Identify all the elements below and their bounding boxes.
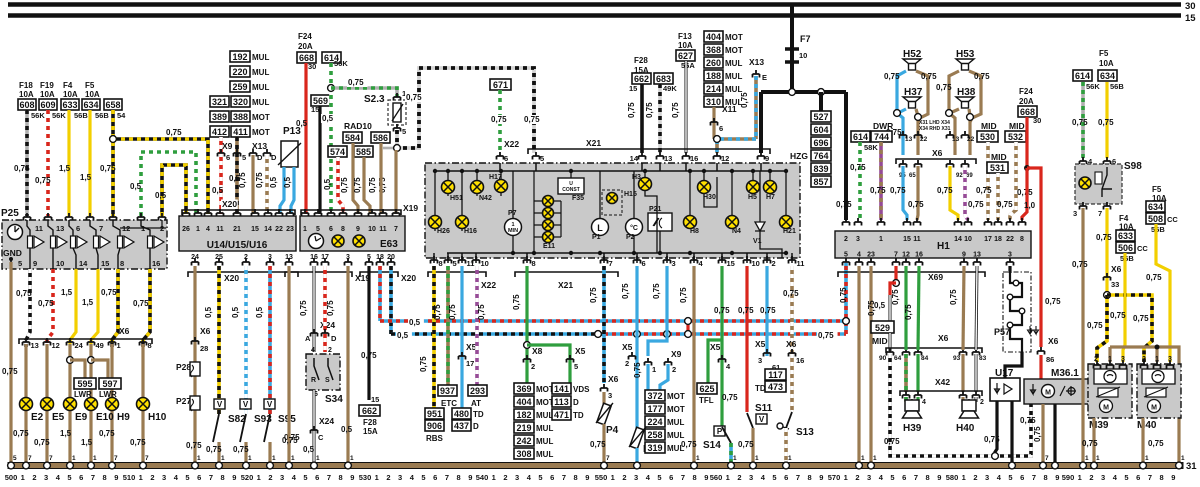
svg-text:6: 6 [1136, 473, 1140, 482]
wire cluster pin 5 to ETC code [446, 266, 450, 385]
svg-text:0,75: 0,75 [133, 299, 149, 308]
svg-text:412: 412 [212, 127, 227, 137]
svg-text:530: 530 [359, 473, 372, 482]
svg-text:3: 3 [758, 356, 762, 365]
svg-text:7: 7 [327, 473, 331, 482]
svg-text:15: 15 [903, 236, 911, 243]
svg-text:6: 6 [226, 153, 230, 162]
svg-text:7: 7 [1032, 473, 1036, 482]
svg-text:7: 7 [1098, 209, 1102, 218]
wire 627 to cluster pin 16 [685, 61, 688, 153]
svg-text:E63: E63 [380, 239, 398, 250]
wire cluster pin 10 to AT code [475, 266, 479, 385]
svg-text:7: 7 [796, 473, 800, 482]
svg-text:5: 5 [185, 473, 189, 482]
svg-text:0,75: 0,75 [512, 294, 521, 310]
svg-text:1: 1 [93, 455, 97, 462]
wire to H1 pin 10 [965, 166, 968, 220]
svg-text:14: 14 [954, 236, 962, 243]
svg-text:6: 6 [902, 473, 906, 482]
junction to LWR 595 [67, 357, 74, 364]
svg-text:0,75: 0,75 [1148, 439, 1164, 448]
svg-text:F28: F28 [363, 418, 377, 427]
svg-text:0,75: 0,75 [130, 438, 146, 447]
cluster internal top rail [435, 170, 786, 172]
svg-text:0,75: 0,75 [681, 440, 697, 449]
svg-text:2: 2 [150, 473, 154, 482]
svg-text:0,5: 0,5 [231, 306, 240, 318]
svg-text:10: 10 [481, 259, 489, 268]
svg-text:0,75: 0,75 [671, 102, 680, 118]
H53/H38 left wire brown [949, 71, 959, 124]
svg-text:7: 7 [114, 455, 118, 462]
svg-text:696: 696 [813, 138, 828, 148]
svg-text:X8: X8 [532, 346, 543, 356]
svg-text:8: 8 [341, 226, 345, 233]
svg-text:0,75: 0,75 [633, 362, 642, 378]
svg-text:0,75: 0,75 [101, 288, 117, 297]
svg-text:RBS: RBS [426, 434, 444, 443]
svg-text:20A: 20A [1019, 97, 1034, 106]
svg-text:0,75: 0,75 [884, 72, 900, 81]
svg-text:0,75: 0,75 [1072, 260, 1088, 269]
svg-text:8: 8 [808, 473, 812, 482]
U17 ground wire [1010, 401, 1013, 463]
svg-text:0,75: 0,75 [714, 306, 730, 315]
wire 411 via X9 to U14 pin 21 [235, 137, 239, 214]
svg-text:8: 8 [221, 473, 225, 482]
svg-text:11: 11 [216, 226, 224, 233]
svg-text:388: 388 [233, 112, 248, 122]
switch S93 [240, 399, 251, 409]
svg-text:MUL: MUL [536, 424, 553, 433]
wire 614 to S98 pin 4 [1081, 82, 1085, 158]
svg-text:1: 1 [611, 473, 615, 482]
junction at S2.3 output [394, 145, 401, 152]
svg-text:15: 15 [371, 395, 379, 404]
svg-text:1: 1 [272, 455, 276, 462]
wire S98 pin 3 to ground [1081, 208, 1084, 463]
svg-text:N42: N42 [479, 195, 492, 202]
svg-text:2: 2 [625, 359, 629, 368]
wire E63 pin 17 to S34 via X24-D [323, 266, 327, 352]
svg-text:E: E [762, 73, 767, 82]
wire loop green/white to P25 pin 1 and U14 pin 1 [141, 152, 196, 216]
svg-text:11: 11 [913, 236, 921, 243]
svg-text:0,75: 0,75 [936, 83, 952, 92]
switch S82 [214, 399, 225, 409]
svg-text:8: 8 [1044, 473, 1048, 482]
rear speaker H39 [904, 397, 908, 402]
svg-text:411: 411 [233, 127, 248, 137]
svg-text:0,5: 0,5 [874, 301, 886, 310]
svg-text:9: 9 [33, 259, 37, 268]
junction to LWR 597 [88, 357, 95, 364]
svg-text:H40: H40 [956, 423, 975, 434]
svg-text:4: 4 [857, 252, 861, 259]
wire P25 pin 14 to X6 [70, 269, 76, 347]
wire E63 pin 16 to S34 via X24-A [313, 266, 316, 352]
wire F7 to H1 pin 2 [844, 92, 848, 220]
svg-text:P25: P25 [1, 208, 19, 219]
wire 614 to H1 pin 3 [858, 142, 862, 220]
svg-text:P57: P57 [994, 327, 1010, 337]
cluster internal rail junctions [511, 251, 515, 255]
svg-text:ETC: ETC [441, 399, 457, 408]
wire cluster pin 8 to RBS codes [432, 266, 436, 408]
warning lamp H5 [747, 181, 760, 194]
svg-text:764: 764 [813, 151, 828, 161]
svg-text:H7: H7 [766, 194, 775, 201]
svg-text:3: 3 [515, 473, 519, 482]
wire to H1 pin 11 [917, 166, 918, 220]
svg-text:H17: H17 [489, 174, 502, 181]
svg-text:15: 15 [629, 84, 637, 93]
svg-text:1: 1 [879, 236, 883, 243]
svg-text:MIN: MIN [508, 228, 518, 234]
warning lamp H26 [434, 171, 436, 231]
wire 584 to E63 pin 9 [353, 143, 358, 214]
instrument illumination control P25 [2, 220, 167, 269]
ignition switch S34 [306, 354, 340, 390]
wire S2.3 to cluster via top loop [397, 68, 534, 153]
svg-text:1: 1 [117, 341, 121, 350]
svg-text:X20: X20 [401, 273, 416, 283]
wire cluster pin 3 to X9-1 [648, 266, 667, 356]
svg-text:1: 1 [291, 455, 295, 462]
wire H1 pin 12 to H39 via X6-64 [904, 266, 907, 350]
svg-text:1: 1 [1145, 455, 1149, 462]
wire cluster pin 4 to ground [692, 266, 695, 463]
svg-text:6: 6 [315, 473, 319, 482]
P25 internal amplifier symbols [27, 220, 30, 236]
temperature gauge P2 [626, 219, 643, 236]
wire 668 to H1 pin 8 and M36.1 [1025, 117, 1028, 168]
svg-text:56B: 56B [1120, 254, 1134, 263]
svg-text:F24: F24 [1019, 87, 1033, 96]
svg-text:GND: GND [3, 248, 22, 258]
svg-text:0,75: 0,75 [99, 429, 115, 438]
svg-text:26: 26 [182, 226, 190, 233]
wire H1 pin 9 to H40 via X6-93 [963, 266, 964, 350]
svg-text:2: 2 [386, 473, 390, 482]
wire code 668 [297, 52, 316, 63]
svg-text:23: 23 [867, 252, 875, 259]
svg-text:M: M [1045, 390, 1051, 397]
svg-text:E9: E9 [75, 412, 88, 423]
svg-text:3: 3 [634, 473, 638, 482]
wire 586 to E63 pin 11 [379, 143, 382, 214]
svg-text:8: 8 [120, 259, 124, 268]
svg-text:0,75: 0,75 [890, 186, 906, 195]
svg-text:TFL: TFL [699, 396, 714, 405]
svg-text:15: 15 [251, 226, 259, 233]
svg-text:0,75: 0,75 [783, 289, 799, 298]
svg-text:2: 2 [268, 473, 272, 482]
fuel gauge P1 [592, 219, 609, 236]
svg-text:0,75: 0,75 [100, 164, 116, 173]
svg-text:X24: X24 [319, 416, 334, 426]
svg-text:X13: X13 [749, 57, 764, 67]
svg-text:293: 293 [470, 386, 485, 396]
svg-text:X5: X5 [575, 346, 586, 356]
wire codes 412 411 MOT [210, 126, 229, 137]
svg-text:D: D [573, 398, 579, 407]
svg-text:3: 3 [856, 236, 860, 243]
voltage stabilizer F35 [558, 178, 584, 194]
svg-text:10A: 10A [40, 90, 55, 99]
svg-text:6: 6 [504, 154, 508, 163]
svg-text:0,5: 0,5 [323, 178, 332, 190]
svg-text:480: 480 [454, 409, 469, 419]
svg-text:84: 84 [921, 355, 929, 362]
svg-text:M36.1: M36.1 [1051, 368, 1079, 379]
svg-text:X22: X22 [481, 280, 496, 290]
connector X42 [900, 391, 982, 396]
svg-text:6: 6 [76, 224, 80, 233]
svg-text:18: 18 [994, 236, 1002, 243]
svg-text:F19: F19 [40, 81, 54, 90]
wire to HZG codes [819, 92, 823, 112]
clips 13 22 left pair [900, 131, 907, 139]
svg-text:529: 529 [875, 323, 890, 333]
fuel level sensor P4 [602, 392, 605, 404]
wire X13-E to cluster pin 12 [754, 76, 758, 139]
svg-text:527: 527 [813, 112, 828, 122]
connector X6 (left) [19, 339, 152, 344]
svg-text:X19: X19 [403, 203, 418, 213]
svg-text:404: 404 [706, 32, 721, 42]
svg-text:7: 7 [1148, 473, 1152, 482]
svg-text:634: 634 [83, 100, 98, 110]
svg-text:D: D [473, 422, 479, 431]
svg-text:9: 9 [350, 473, 354, 482]
svg-text:H30: H30 [703, 194, 716, 201]
svg-text:671: 671 [493, 80, 508, 90]
svg-text:MUL: MUL [536, 437, 553, 446]
bus 30 (battery positive rail) [8, 2, 1181, 7]
svg-text:0,75: 0,75 [38, 299, 54, 308]
svg-text:P27: P27 [176, 396, 191, 406]
svg-text:4: 4 [206, 226, 210, 233]
wire H1 pin 4 to ground [857, 266, 860, 463]
svg-text:634: 634 [1100, 71, 1115, 81]
wire 634 to P25 pin 7 [88, 110, 91, 216]
warning lamp H3 [644, 171, 646, 192]
svg-text:8: 8 [693, 473, 697, 482]
wire H1 pin 16 to H39 via X6-84 [918, 266, 919, 350]
wire cluster pin 7 to P4 sensor [602, 266, 606, 383]
svg-text:90: 90 [879, 355, 887, 362]
wire E63 pin 13 to ground [287, 266, 290, 463]
svg-text:627: 627 [678, 51, 693, 61]
wire 412 via X9 to U14 pin 11 [219, 137, 223, 214]
svg-text:662: 662 [634, 74, 649, 84]
wire code column 369/404 MOT 182/219/242/308 MUL [514, 383, 534, 394]
svg-text:0,75: 0,75 [836, 200, 852, 209]
svg-text:8: 8 [457, 473, 461, 482]
svg-text:56K: 56K [52, 111, 66, 120]
svg-text:TD: TD [473, 410, 484, 419]
wire codes 321 320 MUL [210, 96, 229, 107]
svg-text:S11: S11 [755, 403, 773, 414]
svg-text:VDS: VDS [573, 385, 590, 394]
wire to M40 pin 2 [1107, 295, 1152, 362]
junction on 614 wire [328, 85, 335, 92]
bridge between bus wires [686, 321, 689, 334]
svg-text:906: 906 [427, 421, 442, 431]
svg-text:0,75: 0,75 [1096, 233, 1112, 242]
svg-text:83: 83 [979, 355, 987, 362]
svg-text:5: 5 [67, 473, 71, 482]
svg-text:0,75: 0,75 [524, 115, 540, 124]
lamp E5 [41, 398, 54, 411]
svg-text:319: 319 [647, 443, 662, 453]
svg-text:AT: AT [471, 399, 481, 408]
svg-text:13: 13 [664, 154, 672, 163]
svg-text:1,5: 1,5 [81, 438, 93, 447]
illumination lamps E11 [534, 200, 561, 202]
P13 wires to E63 pins 22 23 [280, 167, 284, 214]
svg-text:15: 15 [311, 105, 319, 114]
svg-text:586: 586 [373, 133, 388, 143]
svg-text:614: 614 [1075, 71, 1090, 81]
svg-text:500: 500 [5, 473, 18, 482]
svg-text:13: 13 [56, 224, 64, 233]
svg-text:0,75: 0,75 [850, 163, 866, 172]
svg-text:1: 1 [303, 226, 307, 233]
svg-text:3: 3 [867, 473, 871, 482]
wire P57 to U17 [1005, 352, 1022, 378]
svg-text:0,75: 0,75 [937, 186, 953, 195]
svg-text:6: 6 [433, 473, 437, 482]
wire code 529 MID [871, 321, 894, 333]
svg-text:CONST: CONST [562, 187, 580, 193]
switch S13 [777, 423, 783, 429]
svg-text:X5: X5 [622, 342, 633, 352]
wire P25 pin 10 to X6 [47, 269, 53, 347]
svg-text:7: 7 [562, 473, 566, 482]
svg-text:506: 506 [1118, 243, 1133, 253]
warning lamp H7 [764, 181, 777, 194]
svg-text:7: 7 [609, 259, 613, 268]
svg-text:1: 1 [755, 455, 759, 462]
svg-text:2: 2 [980, 399, 984, 406]
svg-text:92: 92 [956, 173, 963, 179]
svg-text:0,75: 0,75 [299, 300, 308, 316]
wire code 662 [632, 73, 651, 84]
svg-text:15: 15 [1185, 13, 1196, 24]
warning lamp N42 [476, 171, 478, 196]
svg-text:839: 839 [813, 164, 828, 174]
svg-text:1: 1 [248, 455, 252, 462]
svg-text:744: 744 [874, 132, 889, 142]
svg-text:MUL: MUL [252, 83, 269, 92]
svg-text:0,75: 0,75 [14, 164, 30, 173]
warning lamp H17 [500, 171, 502, 196]
svg-text:MOT: MOT [667, 405, 685, 414]
wire code 634 [1098, 70, 1117, 81]
svg-text:9: 9 [962, 252, 966, 259]
svg-text:1: 1 [1085, 455, 1089, 462]
svg-text:S98: S98 [1124, 161, 1142, 172]
svg-text:0,75: 0,75 [839, 287, 848, 303]
P25 GND stub [9, 257, 13, 261]
svg-text:597: 597 [102, 379, 117, 389]
mirror ground bus [1110, 347, 1179, 463]
svg-text:2: 2 [855, 473, 859, 482]
svg-text:0,75: 0,75 [884, 437, 900, 446]
svg-text:3: 3 [608, 391, 612, 400]
svg-text:F5: F5 [1099, 49, 1109, 58]
svg-text:10A: 10A [678, 41, 693, 50]
svg-text:11: 11 [797, 259, 805, 268]
svg-text:MUL: MUL [725, 72, 742, 81]
svg-text:L: L [597, 223, 603, 233]
svg-text:0,75: 0,75 [206, 445, 222, 454]
svg-text:56B: 56B [1151, 225, 1165, 234]
clips 13 22 right pair [953, 124, 956, 155]
svg-text:8: 8 [439, 259, 443, 268]
svg-text:MID: MID [991, 152, 1007, 162]
svg-text:5: 5 [13, 455, 17, 462]
svg-text:1: 1 [652, 365, 656, 374]
svg-text:1,5: 1,5 [61, 288, 73, 297]
svg-text:F13: F13 [678, 32, 692, 41]
svg-text:E2: E2 [31, 412, 44, 423]
svg-text:16: 16 [796, 356, 804, 365]
svg-text:0,75: 0,75 [904, 304, 913, 320]
wire loop black/yellow to P25 pin 2 and U14 pin 26 [162, 165, 186, 216]
svg-text:22: 22 [1006, 236, 1014, 243]
svg-text:D: D [271, 153, 277, 162]
wire S98 pin 7 to mirrors [1105, 208, 1108, 292]
svg-text:0,75: 0,75 [255, 172, 264, 188]
wire code 937 ETC [438, 385, 457, 396]
svg-text:1: 1 [196, 226, 200, 233]
svg-text:°C: °C [630, 224, 638, 232]
svg-text:0,75: 0,75 [627, 102, 636, 118]
rear speaker H40 [961, 397, 964, 402]
svg-text:404: 404 [516, 397, 531, 407]
svg-text:0,75: 0,75 [186, 441, 202, 450]
svg-text:MOT: MOT [725, 46, 743, 55]
svg-text:S13: S13 [796, 427, 814, 438]
svg-text:3: 3 [1073, 209, 1077, 218]
svg-text:H21: H21 [783, 228, 796, 235]
svg-text:7: 7 [145, 455, 149, 462]
svg-text:X6: X6 [932, 148, 943, 158]
svg-text:5: 5 [242, 153, 246, 162]
wire code 634 [82, 99, 100, 110]
svg-text:5: 5 [890, 473, 894, 482]
svg-text:0,75: 0,75 [974, 72, 990, 81]
svg-text:0,5: 0,5 [212, 186, 224, 195]
svg-text:D: D [257, 153, 263, 162]
svg-text:0,5: 0,5 [130, 182, 142, 191]
svg-text:8: 8 [926, 473, 930, 482]
svg-text:1: 1 [726, 473, 730, 482]
svg-text:0,75: 0,75 [326, 300, 335, 316]
wire codes 480 TD 437 D [452, 408, 471, 419]
P25 ground wire [9, 262, 12, 463]
svg-text:633: 633 [62, 100, 77, 110]
svg-text:0,75: 0,75 [1087, 321, 1103, 330]
wire X13-D to U14 pin 14 [265, 155, 269, 214]
wire code 608 [18, 99, 36, 110]
svg-text:2: 2 [1089, 473, 1093, 482]
svg-text:0,75: 0,75 [35, 176, 51, 185]
